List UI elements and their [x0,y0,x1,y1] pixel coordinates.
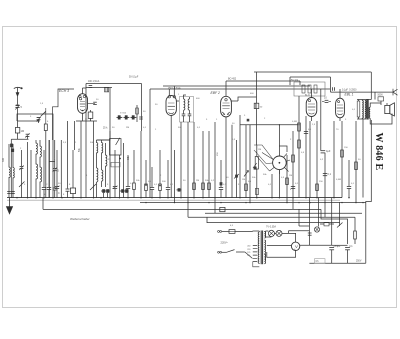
wire grid riser to V1 [46,89,74,140]
junction dots on AVC bus [145,202,146,203]
external speaker jack chevron [393,89,398,95]
tube V5 internal grids [308,100,310,102]
svg-text:100·1,5mA: 100·1,5mA [88,80,100,83]
wire V2 cathode down [170,116,172,198]
resistor R18 [298,140,301,148]
svg-text:2M: 2M [196,180,199,182]
svg-text:220: 220 [247,249,250,251]
resistor R9 [202,182,204,184]
wire switch to voltage selector [236,251,245,253]
wire coil group verticals [8,144,10,198]
wire selector bottom link [253,262,259,267]
wire V6 anode to output transformer [336,93,344,98]
capacitor C10b padder (dark trimmer) [125,115,128,119]
wire x256.5 riser [256,72,258,97]
wire osc top link [97,131,111,140]
wire vertical x31 [30,150,32,198]
switch S2 mains on/off (on pot) [337,223,343,228]
wire detector line y124.8 [240,124,298,126]
svg-text:BO 452: BO 452 [228,78,237,81]
svg-text:C: C [58,192,60,195]
svg-text:125: 125 [247,252,250,254]
wire y124.8 to x299 link [298,124,299,125]
inductor L3 RF coil [35,140,37,198]
capacitor C10a padder (dark trimmer) [118,115,121,119]
wire heater run to tubes [289,230,310,232]
wire vertical x74 oscillator grid [74,121,76,150]
wire transformer top link [357,99,371,101]
wire vertical x181 down [180,122,182,198]
inductor L7 oscillator lower [96,168,98,181]
wire vertical x356 [355,121,357,203]
junction dot mid1 [145,184,147,186]
wire fan line 2 to eye [254,150,266,164]
wire cathode bus link [76,120,97,122]
capacitor C26 5000 [378,97,384,101]
wire long line y89 [150,88,330,90]
oscillator padder box [111,162,120,167]
capacitor C11 [151,167,153,187]
antenna [14,87,21,88]
wire vertical x105.5 [105,143,107,187]
svg-text:5000: 5000 [378,95,384,97]
resistor R11 [245,184,248,191]
svg-text:1M: 1M [21,130,24,133]
wire V5 anode top [311,89,313,97]
power transformer T4 HT winding [264,240,266,260]
svg-text:EBL 1: EBL 1 [345,93,354,97]
capacitor C32 in band line [105,87,109,92]
dial lamp LP2 [276,230,282,236]
wire B+ extension [332,244,348,246]
tube V2 internal grids [168,102,175,104]
wire vertical x236.5 [236,140,238,198]
capacitor C24 grid series [332,87,334,91]
wire rectifier bottom return [267,251,296,258]
output transformer T3 second winding [364,101,366,118]
inductor L8 oscillator lower [101,170,103,180]
wire osc coil top link [97,139,111,141]
wire vertical x81 down [80,121,82,198]
wire band line right drop [149,89,151,198]
wire vertical x188 down [187,122,189,217]
wire tone box top y77 [290,76,331,78]
potentiometer wiper arrow [244,171,249,177]
capacitor C14 T1 trimmer [188,113,192,115]
wire vertical x27 [27,142,29,198]
capacitor C2c blocking [10,144,13,148]
svg-text:4µF: 4µF [326,150,331,153]
rectifier filament symbol [295,245,298,247]
capacitor C20 coupling [305,130,307,132]
resistor R2 cathode bias [72,150,74,188]
wire mains upper lead [222,231,229,233]
capacitor C22 4uF [321,150,326,152]
variable capacitor CV2 tuning gang section 2 [114,150,116,186]
resistor R23 dropper [354,231,357,239]
resistor R5 25k [133,150,135,183]
wire vertical x141 [140,131,142,198]
wire vertical x203 [202,131,204,198]
wire top right line y92 [331,91,394,93]
wire x375 drop from top [374,92,376,99]
tube V3 internal grids [225,99,227,101]
capacitor C4 trimmer [43,150,45,187]
wire x309 bottom drop [308,245,310,263]
wire primary top lead [253,230,260,232]
output transformer T3 core [366,99,368,120]
svg-text:7V·0,35A: 7V·0,35A [266,225,276,228]
wire x110 drop from band line 2 [109,88,111,132]
capacitor C3c [11,191,15,193]
wire anode link to band wires [83,87,87,89]
wire vertical x123.5 [123,143,125,198]
wire fuse to primary [235,230,259,233]
wire riser x300 [299,81,301,85]
inductor L6 [39,167,41,181]
svg-text:240: 240 [247,246,250,248]
tube V2 grid cap circles [168,96,170,98]
wire B+ distribution bus lower [188,216,355,218]
wire AVC bus [140,202,366,204]
wire band line 2 [86,87,112,89]
wire vertical x67 cathode [67,121,69,189]
wire x141.5 drop from band line [141,84,143,132]
capacitor C21 10 [325,99,329,101]
variable capacitor CV1 tuning gang section 1 [56,150,58,186]
wire vertical x287 down [286,155,288,203]
wire vertical x299 long [298,96,300,198]
wire diode load left [239,115,241,198]
voltage selector arm [245,252,253,258]
resistor R12 eye series [286,178,289,185]
capacitor C3a trimmer [26,133,30,135]
svg-text:50·0,1µF: 50·0,1µF [129,77,139,79]
svg-text:50·10k: 50·10k [291,80,299,82]
wire long line y86 [163,85,310,87]
wire tube V1 anode top [82,88,84,94]
wire vertical x339 PSU [339,202,341,226]
wire vertical x53 tuning gang lead [52,140,54,198]
wire band line 1 left drop [85,84,87,122]
wire heater feed y226 [299,225,309,227]
wire vertical x86 down [85,121,87,198]
wire V3 anode to T2 [238,97,257,101]
wire vertical x119.5 [119,155,121,198]
wire eye cathode down [278,170,280,198]
resistor R21 cathode V6 [341,150,344,157]
capacitor C23 0.1 [323,173,327,175]
wire chassis/ground bus (main horizontal bus) [7,197,342,199]
capacitor C12 cathode bypass [167,160,169,187]
tube V1 internal grids [79,98,81,100]
svg-text:110: 110 [247,255,250,257]
wire vertical x331 PSU [331,198,333,246]
capacitor C3 padding [21,150,23,166]
capacitor C25 [348,160,350,186]
wire V3 grid top [225,81,227,96]
ground [9,198,11,208]
wire vertical x246 [245,125,247,198]
wire bottom return line [309,262,365,264]
wire grid branch y139 [11,138,28,140]
resistor R10 [208,183,211,190]
junction dots on ground bus [16,197,18,199]
tube V2 IF amplifier [166,96,176,116]
wire vertical x342 down [341,121,343,198]
svg-text:Wellenschalter: Wellenschalter [70,217,91,221]
wire vertical x272 [271,174,273,198]
junction blob AVC switch [235,175,238,178]
loudspeaker LS1 [385,105,390,113]
chassis label box [315,259,326,264]
resistor R4 50 [90,110,92,112]
inductor L10 osc tank upper [96,140,98,168]
switch S1e oscillator blade [116,138,120,145]
wire vertical x318 lamp feed [318,198,320,227]
resistor R8 [193,160,195,183]
wire eye top link [279,146,287,152]
capacitor C18 diode filter [247,119,250,122]
svg-text:0,1µF 5·2500: 0,1µF 5·2500 [342,90,357,92]
capacitor C7 at tube right [88,103,96,105]
wire tone box left [289,77,291,85]
wire vertical x110 gang 2 [109,131,111,198]
wire grid lead stub [49,161,54,163]
wire vertical x194 [193,122,195,198]
voltage selector taps [253,246,257,262]
switch S1a waveband [41,111,46,116]
power transformer T4 primary winding [259,232,261,263]
wire antenna lead down [17,97,19,105]
resistor R13 [292,155,295,162]
inductor T1 primary [183,97,185,99]
wire vertical x299 to PSU [298,209,300,226]
rectifier tube V7 [291,242,299,250]
wire bus corner x43 [42,198,44,210]
output transformer T3 secondary winding [369,108,371,118]
wire top line y72 [254,71,371,73]
svg-text:0,1: 0,1 [328,173,332,176]
junction blob detector area [220,182,223,185]
tone filter box outline [294,82,325,96]
wire V3 anode right [231,100,238,102]
wire top link x330 drop [330,77,332,92]
capacitor C19 [291,186,295,188]
capacitor C30 near V2 [139,116,143,118]
magic eye tube V4 (tuning indicator, top view) [273,156,287,170]
svg-text:1M: 1M [289,175,292,177]
tube V3 EBF2 (IF/detector) [221,96,232,117]
capacitor C6 trimmer [54,140,56,168]
wire vertical x93.5 [93,121,95,198]
resistor R1b [44,124,47,131]
capacitor C29 filter [345,247,350,249]
capacitor C10c padder (dark trimmer) [132,115,135,119]
tube ECH3 V1 (mixer/oscillator) [78,94,88,114]
resistor R25 pot lower [255,188,258,194]
switch S1d oscillator [90,184,96,190]
capacitor C28 filter 2x4uF [329,247,334,249]
junction dot oscillator [119,158,121,160]
wire fan line 1 to eye [254,145,273,160]
capacitor C8 padder (dark) [102,189,105,193]
capacitor C9 padder (dark) [106,189,109,193]
svg-text:0,5M: 0,5M [336,179,341,181]
power transformer T4 core [260,231,262,265]
svg-text:300: 300 [2,157,5,162]
svg-text:ECH 3: ECH 3 [59,89,69,93]
capacitor C2 trimmer [38,121,40,123]
wire V6 cathode down [339,118,341,121]
tube V1 grid cap circles [79,95,81,97]
resistor R19 cathode [316,184,319,191]
svg-text:EBF 2: EBF 2 [211,91,220,95]
inductor T1 secondary [189,97,191,99]
wire grid route to tube top [53,89,75,140]
dial lamp LP3 [314,227,319,232]
inductor L1 antenna coil LW [8,167,10,177]
capacitor C13 T1 trimmer [182,113,186,115]
wire rectifier cathode output B+ [300,244,332,246]
capacitor C1 antenna series trimmer [15,104,19,106]
potentiometer P1 volume [255,157,258,170]
wire vertical x310 down [309,121,311,198]
power transformer T4 rectifier filament winding [264,255,266,263]
tube V3 diode plates [222,112,229,115]
wire lamp line top [266,230,269,232]
svg-text:2M: 2M [126,127,129,129]
power transformer T4 filament winding top [264,232,266,238]
inductor L9 [105,155,107,165]
wire x11 down [10,139,12,197]
svg-text:1M: 1M [258,149,261,151]
svg-text:3×500: 3×500 [120,112,127,115]
wire vertical x61 [60,140,62,198]
wire vertical x293 [292,131,294,209]
fuse F2 [324,222,329,226]
wire antenna lead to coil tap [17,107,19,127]
resistor R20 in bus [220,207,225,211]
capacitor C3b [7,191,11,193]
wire fan line 3 to eye [257,157,270,172]
inductor L2 antenna coil MW [12,168,14,178]
wire vertical x363 drop [362,119,364,198]
resistor R24 near V2 input [136,105,138,122]
wire bus riser right side [366,120,372,263]
svg-text:2×4µF: 2×4µF [334,245,341,248]
resistor R16 tone [314,85,317,93]
wire speaker top lead [386,103,388,105]
resistor R15 tone [308,85,311,93]
capacitor C9c padder (dark) [125,189,128,193]
wire T1 primary top link to V2 anode [176,95,186,101]
wire vertical x309 PSU [308,198,310,246]
wire vertical x334 [333,121,335,198]
wire vertical x306 [305,116,307,198]
switch S3 mains [227,250,235,253]
fuse F1 mains [229,230,235,234]
wire osc tank loop [110,139,122,155]
tube V6 internal grids [338,101,340,103]
wire output transformer top feed [370,72,372,100]
wire vertical x250 [249,125,251,203]
inductor L4 RF coil [39,140,41,198]
junction dot mid2 [159,185,161,187]
wire ground bus ghost line [7,199,340,201]
capacitor C5 trimmer [48,140,50,187]
wire link coils to grid [17,114,53,140]
capacitor C27 [308,232,312,234]
magic eye spokes [262,153,290,175]
mains terminal upper [220,231,222,233]
switch S1c [19,182,25,188]
inductor T2 IF choke [256,97,258,103]
junction blob pot top [254,167,257,170]
resistor R6 [145,160,147,184]
mains terminal lower [220,251,222,253]
wire V5 cathode down [311,117,313,121]
capacitor blob x179 [178,188,181,191]
svg-text:0,5M: 0,5M [292,121,297,123]
wire lamp line bottom [266,231,296,242]
svg-text:250V: 250V [356,261,362,263]
wire HT to rectifier anode [267,245,292,247]
wire vertical x320.8 upper [320,89,322,151]
capacitor C10 [127,155,129,186]
wire staircase to rectifier [321,209,348,244]
capacitor C2d blocking [11,149,14,152]
capacitor C9b padder (dark) [121,189,124,193]
wire vertical x215 [214,122,216,213]
wire eye plate up [278,125,280,156]
wire vertical x174 [174,150,176,203]
wire heater bus [43,208,321,210]
wire V2 top to band wires [168,89,170,96]
wire vertical x232 [231,125,233,198]
wire band line 1 [86,83,142,85]
dial lamp LP1 [268,230,274,236]
svg-text:61,8: 61,8 [305,95,310,97]
wire HT center tap down [267,252,292,257]
resistor R17 [298,123,301,131]
wire V3 cathode down [225,117,227,198]
resistor R22 50 [355,162,358,170]
resistor R14 tone [302,85,305,93]
wire vertical x209 [208,131,210,198]
wire antenna branch horizontal [18,120,39,122]
inductor L5 [35,164,37,178]
svg-text:W 846 E: W 846 E [373,133,384,171]
wire top line y81 [226,80,300,82]
inductor L11 osc tank upper [101,140,103,170]
wire B+ distribution bus upper [205,212,362,214]
wire tube V1 cathode down [82,113,84,121]
wire V6 grid top [339,89,341,98]
wire vertical x317 [316,121,318,198]
wire vertical x325 lower [324,153,326,217]
svg-text:1M: 1M [242,179,245,181]
IF transformer T1 shield box [180,97,194,123]
capacitor C15 [220,160,222,187]
tube V6 EBL1 output pentode [336,98,345,118]
capacitor C31 in band line [89,85,93,87]
tube V5 AF amplifier [306,98,317,117]
wire vertical x49 [48,140,50,198]
output transformer T3 primary winding [361,101,363,118]
resistor R7 cathode [159,150,161,184]
wire secondary to speaker [370,103,392,124]
